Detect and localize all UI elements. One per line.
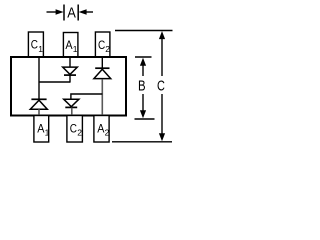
svg-text:A: A — [67, 6, 76, 22]
svg-text:C: C — [157, 77, 165, 94]
B dimension line with arrows — [142, 64, 144, 76]
svg-text:1: 1 — [73, 44, 78, 54]
svg-text:1: 1 — [45, 128, 50, 138]
svg-text:C: C — [70, 122, 77, 136]
svg-text:C: C — [98, 38, 105, 52]
wire D1 cathode stub — [69, 75, 71, 82]
wire C1 drop — [38, 57, 40, 99]
pin A1 (bottom left) — [34, 116, 49, 143]
diode D2 (cathode to top C2, anode to A2 line) — [95, 67, 109, 69]
dimension A right arrow — [84, 11, 93, 13]
wire D4 cathode to bottom C2 pin (grey) — [71, 108, 73, 116]
svg-text:2: 2 — [105, 128, 110, 138]
wire A1 top to D1 anode — [69, 57, 71, 67]
pin A2 (bottom right) — [94, 116, 109, 143]
svg-text:1: 1 — [38, 44, 43, 54]
svg-text:C: C — [31, 38, 38, 52]
diode D1 (anode to top A1, cathode to C1 node) — [63, 67, 78, 74]
wire D3 anode to bottom A1 pin (grey) — [38, 109, 40, 115]
diode D3 (cathode to C1 node, anode to bottom A1 pin) — [31, 98, 46, 100]
B top tick (body top) — [135, 56, 152, 58]
pin A1 (top middle) — [63, 33, 78, 58]
svg-text:B: B — [138, 77, 146, 94]
dimension A left arrow — [47, 11, 59, 13]
C dimension line with arrows — [161, 38, 163, 77]
diode D4 (anode to A2 node, cathode to bottom C2 pin) — [64, 99, 79, 106]
B bottom tick — [135, 118, 155, 120]
pin C2 (bottom middle) — [67, 116, 83, 143]
svg-text:2: 2 — [77, 128, 82, 138]
svg-text:2: 2 — [105, 44, 110, 54]
wire A2 vertical (grey) — [101, 79, 103, 115]
bottom reference line for C dimension — [112, 141, 172, 143]
wire branch C1 to D1 cathode — [39, 81, 70, 83]
pin C2 (top right) — [95, 32, 110, 57]
wire D4 anode corner to A2 line — [71, 94, 102, 99]
top reference line for C dimension — [115, 30, 173, 32]
dimension A right extension tick — [77, 5, 79, 21]
pin C1 (top left) — [28, 32, 43, 57]
package body — [11, 57, 126, 116]
wire C2 top to D2 cathode — [101, 57, 103, 68]
dimension A left extension tick — [63, 5, 65, 21]
